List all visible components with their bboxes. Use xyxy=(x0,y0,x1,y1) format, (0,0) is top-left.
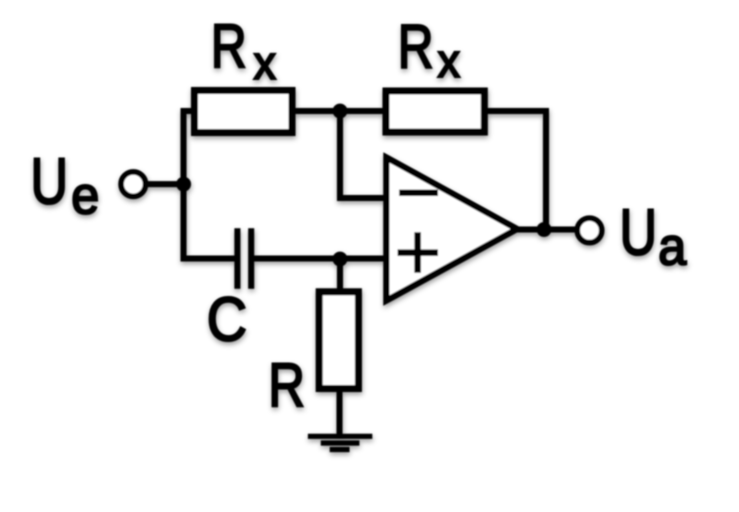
svg-text:U: U xyxy=(620,197,658,269)
svg-text:x: x xyxy=(438,35,460,87)
svg-text:R: R xyxy=(268,352,305,421)
svg-text:U: U xyxy=(31,146,69,218)
svg-text:R: R xyxy=(211,11,247,81)
svg-text:R: R xyxy=(398,12,434,82)
svg-text:a: a xyxy=(658,216,686,275)
svg-text:e: e xyxy=(71,165,99,224)
svg-text:C: C xyxy=(207,286,247,354)
svg-text:x: x xyxy=(254,37,276,89)
